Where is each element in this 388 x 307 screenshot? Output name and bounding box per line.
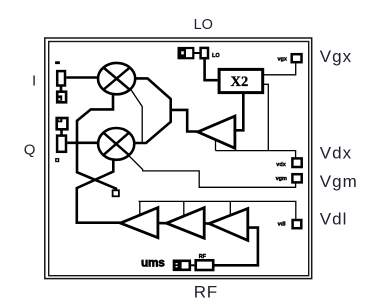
tiny dot below Q pad (56, 159, 59, 162)
wire LO splitter to both mixers (134, 78, 170, 143)
dark block in cap pad (57, 95, 62, 100)
stub cap pad to Q pad (60, 129, 63, 135)
wire I pad to mixer M1 (66, 76, 98, 79)
thin vgx wire from Vgx pad to X2 (263, 63, 296, 75)
frequency doubler X2 (219, 69, 263, 92)
thin bias line mixer M1 (130, 89, 142, 142)
svg-text:LO: LO (212, 53, 220, 59)
vdl drop to A3 (229, 201, 231, 215)
svg-text:ums: ums (141, 256, 165, 270)
I pad (57, 71, 65, 85)
wire mixer M2 IF down through crossing to amplifier chain (77, 159, 121, 223)
svg-text:I: I (32, 72, 36, 89)
svg-text:Vdx: Vdx (320, 144, 352, 163)
Vdl pad (293, 220, 302, 228)
wire X2 output to LO amp (235, 93, 243, 131)
chip inner border (49, 42, 309, 276)
svg-text:Q: Q (24, 141, 36, 158)
Vgx pad (292, 54, 302, 62)
svg-text:Vgx: Vgx (320, 47, 352, 66)
stub I pad to cap pad (60, 86, 63, 92)
I pad column: tiny glyph (55, 61, 60, 64)
thin bias line mixer M2 to Vgm pad (129, 155, 296, 187)
wire LO amp output to splitter (171, 110, 198, 132)
op-amp LO buffer (triangle) (198, 116, 235, 148)
svg-text:X2: X2 (231, 74, 249, 90)
thin vdx net X2 / LO amp / Vdx pad (263, 84, 269, 150)
svg-text:vgx: vgx (278, 57, 288, 63)
amplifier A3 (triangle) (209, 209, 248, 241)
RF pad group (bottom) (174, 260, 213, 270)
amplifier A2 (triangle) (167, 208, 205, 239)
svg-text:RF: RF (194, 283, 218, 302)
wire RF pad to A3 input (215, 228, 258, 266)
mixer M2 (circle with X) (98, 128, 134, 160)
wire A2 to A3 (204, 222, 209, 225)
dark block in cap pad (58, 118, 63, 122)
svg-text:Vgm: Vgm (320, 172, 358, 191)
svg-text:vgm: vgm (276, 176, 287, 182)
wire LO pad to X2 (205, 59, 218, 80)
Vgm pad (292, 174, 301, 182)
vdl drop to A1 (139, 201, 141, 215)
termination square at crossing output (113, 190, 119, 196)
vdl drop to A2 (183, 201, 185, 216)
wire A1 to A2 (158, 222, 167, 225)
Vdx pad (292, 158, 301, 167)
thin vdl bias rail to amplifiers (139, 201, 296, 219)
mixer M1 (circle with X) (98, 63, 135, 94)
svg-text:vdx: vdx (276, 162, 286, 168)
cap pad below I (57, 92, 66, 103)
svg-text:RF: RF (199, 254, 207, 260)
amplifier A1 (triangle) (120, 208, 157, 238)
svg-text:LO: LO (194, 17, 213, 33)
chip outer border (45, 38, 312, 279)
LO pad group (top) (179, 48, 208, 58)
cap pad above Q (57, 118, 68, 129)
svg-text:Vdl: Vdl (320, 209, 348, 228)
wire mixer M1 IF down to crossing (77, 94, 116, 191)
wire Q pad to mixer M2 (67, 142, 98, 145)
svg-text:vdl: vdl (278, 221, 286, 227)
Q pad (57, 136, 66, 152)
